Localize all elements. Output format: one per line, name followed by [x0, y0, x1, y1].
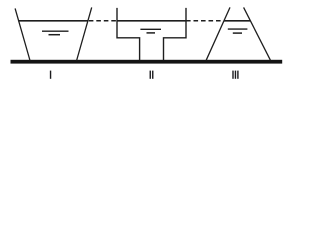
vessel II surface mark medium line [140, 28, 161, 30]
vessel I liquid level line [18, 20, 88, 22]
vessel I surface mark short line [49, 34, 61, 36]
vessel II right wall and stem (right profile) [164, 8, 187, 60]
vessel III surface mark short line [233, 32, 242, 34]
vessel III liquid level line [224, 20, 251, 22]
vessel III right wall [244, 7, 271, 60]
vessel I left wall [15, 8, 30, 60]
vessel II left wall and stem (left profile) [117, 8, 140, 60]
vessel I surface mark medium line [42, 30, 69, 32]
label II [150, 71, 154, 79]
dashed level line between vessel I and vessel II [89, 20, 117, 22]
table base line [11, 60, 283, 64]
dashed level line between vessel II and vessel III [186, 20, 224, 22]
label I [50, 71, 51, 79]
vessel II liquid level line [117, 20, 186, 22]
vessel III left wall [206, 7, 230, 60]
vessel III surface mark medium line [228, 28, 248, 30]
vessel I right wall [77, 7, 92, 60]
vessel II surface mark short line [147, 32, 156, 34]
label III [232, 71, 238, 79]
